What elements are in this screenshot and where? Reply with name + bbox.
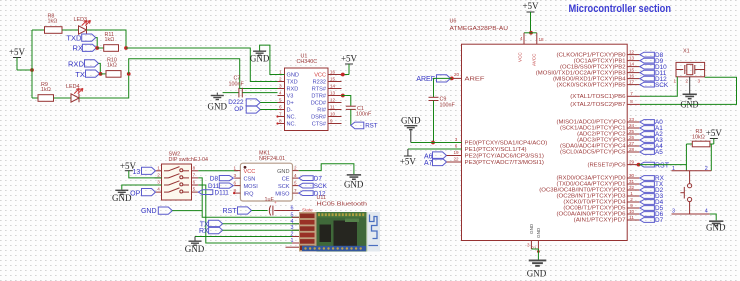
U1 pin 7 NC. bbox=[278, 116, 285, 118]
svg-text:RXD: RXD bbox=[287, 87, 299, 93]
U6 pin 25 PC2 bbox=[627, 133, 640, 135]
svg-text:+5V: +5V bbox=[706, 128, 723, 138]
capacitor C9 100nF bbox=[434, 78, 452, 97]
junction dot U6 VCC bbox=[529, 31, 533, 35]
svg-text:1kΩ: 1kΩ bbox=[41, 87, 51, 93]
svg-text:30: 30 bbox=[629, 173, 635, 178]
SW2 pole 4 rocker bbox=[155, 191, 162, 193]
U6 pin 30 PD0 bbox=[627, 177, 640, 179]
svg-text:28: 28 bbox=[629, 147, 635, 152]
svg-text:6: 6 bbox=[193, 180, 196, 185]
svg-text:1: 1 bbox=[630, 191, 633, 196]
U6 pin 4 VCC stub bbox=[523, 33, 525, 44]
svg-text:OP: OP bbox=[234, 106, 243, 113]
svg-text:R232: R232 bbox=[313, 80, 326, 86]
U11 stub below pin1 bbox=[286, 246, 300, 248]
U1 pin 10 DSR# bbox=[328, 116, 342, 118]
svg-text:2: 2 bbox=[294, 165, 297, 170]
svg-text:GND: GND bbox=[277, 169, 289, 175]
svg-text:(XTAL2/TOSC2)PB7: (XTAL2/TOSC2)PB7 bbox=[570, 102, 625, 108]
U6 pin 7 PB6 (XTAL1) bbox=[627, 95, 640, 97]
svg-text:OP: OP bbox=[130, 190, 140, 197]
U6 pin 13 PB1 bbox=[627, 60, 640, 62]
svg-text:CSN: CSN bbox=[244, 177, 256, 183]
svg-text:AREF: AREF bbox=[465, 77, 486, 83]
net label D10 bbox=[640, 64, 655, 69]
svg-text:GND: GND bbox=[141, 208, 157, 215]
svg-text:+5V: +5V bbox=[120, 161, 137, 171]
svg-text:2: 2 bbox=[279, 76, 282, 81]
svg-text:16: 16 bbox=[330, 69, 336, 74]
U1 pin 2 TXD bbox=[278, 81, 285, 83]
U1 pin 4 V3 bbox=[278, 95, 285, 97]
net label A0 bbox=[640, 120, 655, 125]
wire RST up to R3 bbox=[685, 144, 687, 171]
net label A4 bbox=[640, 144, 655, 149]
svg-text:5: 5 bbox=[193, 187, 196, 192]
svg-text:19: 19 bbox=[453, 150, 459, 155]
U6 pin 26 PC3 bbox=[627, 139, 640, 141]
svg-text:ATMEGA328PB-AU: ATMEGA328PB-AU bbox=[450, 26, 509, 32]
svg-text:3: 3 bbox=[672, 209, 675, 215]
svg-text:11: 11 bbox=[330, 104, 335, 109]
svg-text:RXD: RXD bbox=[68, 60, 85, 69]
svg-text:13: 13 bbox=[629, 55, 635, 60]
U1 pin 9 CTS# bbox=[328, 123, 342, 125]
net label D3 bbox=[640, 194, 655, 199]
svg-text:RST: RST bbox=[365, 123, 378, 130]
wire cap to HC05 pin6 bbox=[274, 210, 292, 212]
svg-text:D8: D8 bbox=[210, 175, 219, 182]
U6 pin 32 PD2 bbox=[627, 189, 640, 191]
svg-text:20: 20 bbox=[454, 72, 460, 77]
U6 pin 28 PC5 bbox=[627, 151, 640, 153]
svg-text:5: 5 bbox=[279, 97, 282, 102]
svg-text:2: 2 bbox=[686, 79, 689, 84]
svg-text:4: 4 bbox=[705, 209, 708, 215]
svg-text:14: 14 bbox=[629, 61, 635, 66]
MK1 pin 6 MOSI bbox=[234, 185, 240, 187]
U6 pin 29 PC6 RESET bbox=[627, 164, 638, 166]
svg-text:100nF: 100nF bbox=[229, 82, 245, 88]
svg-text:6: 6 bbox=[233, 180, 236, 185]
U6 pin 10 PD6 bbox=[627, 213, 640, 215]
junction dot R10 out bbox=[127, 72, 131, 76]
U6 pin 17 PB5 bbox=[627, 84, 640, 86]
U6 pin 2 PD4 bbox=[627, 201, 640, 203]
net label D12 bbox=[640, 76, 655, 81]
svg-text:A7: A7 bbox=[424, 160, 433, 167]
svg-text:SCK: SCK bbox=[655, 82, 669, 89]
svg-text:RTS#: RTS# bbox=[312, 87, 327, 93]
wire to R10 bbox=[101, 73, 106, 75]
wire net TXD to CH340 pin2 bbox=[126, 48, 278, 82]
U1 pin 11 RI# bbox=[328, 109, 342, 111]
svg-text:7: 7 bbox=[279, 111, 282, 116]
wire PB7 to X1 bbox=[640, 77, 737, 104]
svg-text:1: 1 bbox=[157, 165, 160, 170]
U6 pin 12 PB0 bbox=[627, 54, 640, 56]
svg-text:GND: GND bbox=[401, 116, 421, 126]
net label SCK at MK1 SCK bbox=[299, 183, 314, 188]
junction node TX/RXD bbox=[99, 72, 103, 76]
svg-text:PE1(PTCXY/SCL1/T4): PE1(PTCXY/SCL1/T4) bbox=[465, 147, 527, 153]
wire RX to HC05 pin3 bbox=[223, 229, 300, 231]
svg-text:NC.: NC. bbox=[287, 115, 297, 121]
ground GND at MK1 bbox=[347, 174, 361, 176]
net label A2 bbox=[640, 132, 655, 137]
wire VCC/AVCC link bbox=[524, 32, 537, 34]
svg-text:+5V: +5V bbox=[9, 47, 26, 57]
wire SW2 pin8 to MK1 VCC bbox=[198, 170, 237, 172]
SW2 pole 3 rocker bbox=[155, 184, 162, 186]
power +5V at R3 bbox=[710, 143, 714, 145]
svg-text:GND: GND bbox=[706, 223, 726, 233]
U1 NC pin8 end dot bbox=[276, 122, 278, 124]
svg-text:4: 4 bbox=[157, 187, 160, 192]
svg-text:29: 29 bbox=[629, 159, 635, 164]
svg-text:24: 24 bbox=[629, 123, 635, 128]
MK1 IRQ unconnected dot bbox=[233, 192, 235, 194]
U1 pin 16 VCC bbox=[328, 74, 342, 76]
net label D6 bbox=[640, 212, 655, 217]
MK1 pin 7 MISO bbox=[293, 192, 299, 194]
svg-text:D11: D11 bbox=[208, 183, 220, 190]
svg-text:12: 12 bbox=[330, 97, 336, 102]
net label A3 bbox=[640, 138, 655, 143]
U1 pin 3 RXD bbox=[278, 88, 285, 90]
svg-text:8: 8 bbox=[630, 99, 633, 104]
svg-text:4: 4 bbox=[279, 90, 282, 95]
svg-text:RI#: RI# bbox=[317, 108, 327, 114]
svg-text:IRQ: IRQ bbox=[244, 192, 255, 198]
svg-text:+5V: +5V bbox=[522, 1, 539, 11]
svg-text:GND: GND bbox=[681, 100, 699, 110]
U6 pin 24 PC1 bbox=[627, 127, 640, 129]
svg-text:D222: D222 bbox=[228, 99, 244, 106]
net label D12 at MK1 MISO bbox=[299, 191, 314, 196]
svg-text:MISO: MISO bbox=[275, 192, 290, 198]
svg-text:PE0(PTCXY/SDA1/ICP4/ACO): PE0(PTCXY/SDA1/ICP4/ACO) bbox=[465, 140, 548, 146]
svg-text:3: 3 bbox=[279, 83, 282, 88]
svg-text:TXD: TXD bbox=[66, 33, 82, 42]
ground GND at X1 bbox=[689, 77, 691, 94]
ground GND at switch bbox=[709, 220, 723, 222]
svg-text:4: 4 bbox=[520, 36, 523, 41]
ground GND below HC05 wires bbox=[194, 237, 196, 241]
svg-text:27: 27 bbox=[629, 141, 635, 146]
svg-text:100nF: 100nF bbox=[356, 111, 372, 117]
net label D4 bbox=[640, 200, 655, 205]
svg-text:GND: GND bbox=[287, 73, 299, 79]
wire TXD stub bbox=[96, 38, 98, 48]
junction dot RST bbox=[637, 163, 641, 167]
svg-text:U6: U6 bbox=[450, 19, 457, 25]
svg-text:CH340C: CH340C bbox=[297, 59, 318, 65]
junction dot R11 out bbox=[124, 46, 128, 50]
net label D111 at SW2 pin5 bbox=[198, 190, 213, 195]
net label A5 bbox=[640, 150, 655, 155]
svg-text:State: State bbox=[302, 208, 313, 213]
net label D7 bbox=[640, 218, 655, 223]
wire LED3 cathode to node bbox=[87, 30, 127, 48]
wire GND pins join bbox=[531, 248, 538, 250]
net label D8 bbox=[640, 52, 655, 57]
U1 pin 15 R232 bbox=[328, 81, 342, 83]
wire MK1 GND pin to ground bbox=[299, 164, 354, 174]
U1 pin 1 GND bbox=[278, 74, 285, 76]
svg-text:CE: CE bbox=[282, 177, 290, 183]
svg-text:MOSI: MOSI bbox=[244, 184, 259, 190]
svg-text:NRF24L01: NRF24L01 bbox=[259, 156, 285, 162]
wire RST to cap bbox=[252, 210, 268, 212]
svg-text:2: 2 bbox=[630, 197, 633, 202]
MK1 pin 3 CSN bbox=[234, 177, 240, 179]
svg-text:100nF: 100nF bbox=[440, 103, 456, 109]
wire PB6 to X1 bbox=[640, 77, 677, 97]
wire GND to PE0 bbox=[411, 142, 462, 144]
svg-text:(AIN1/PTCXY)PD7: (AIN1/PTCXY)PD7 bbox=[574, 218, 626, 224]
net label RST (U6) bbox=[640, 162, 655, 167]
svg-text:D7: D7 bbox=[655, 217, 664, 224]
wire RST net to switch bbox=[639, 164, 687, 166]
svg-text:1: 1 bbox=[672, 166, 675, 172]
svg-text:7: 7 bbox=[193, 172, 196, 177]
switch SW1 top rail pins 1-2 bbox=[672, 170, 712, 172]
svg-text:PE2(PTCY/ADC6/ICP3/SS1): PE2(PTCY/ADC6/ICP3/SS1) bbox=[465, 153, 545, 159]
net label D11 bbox=[640, 70, 655, 75]
U6 pin 18 AVCC stub bbox=[536, 33, 538, 44]
svg-text:1uF: 1uF bbox=[265, 197, 275, 203]
net label D5 bbox=[640, 206, 655, 211]
MK1 pin 4 CE bbox=[293, 177, 299, 179]
U6 pin 11 PD7 bbox=[627, 219, 640, 221]
svg-text:6: 6 bbox=[455, 143, 458, 148]
svg-text:RST: RST bbox=[655, 162, 670, 169]
junction node RX/TXD bbox=[95, 46, 99, 50]
wire SW2 pin6 to HC05 pin1 bbox=[198, 185, 299, 243]
svg-text:10kΩ: 10kΩ bbox=[692, 135, 705, 141]
wire to R8 bbox=[32, 29, 45, 31]
svg-text:7: 7 bbox=[294, 188, 297, 193]
svg-text:3: 3 bbox=[698, 79, 701, 84]
wire TX to HC05 pin4 bbox=[223, 223, 300, 225]
svg-text:D+: D+ bbox=[287, 101, 294, 107]
svg-text:3: 3 bbox=[527, 243, 530, 248]
svg-text:CTS#: CTS# bbox=[312, 122, 327, 128]
U1 pin 6 D- bbox=[278, 109, 285, 111]
U6 pin 15 PB3 bbox=[627, 72, 640, 74]
ground GND below U6 bbox=[537, 249, 539, 260]
svg-text:1kΩ: 1kΩ bbox=[48, 19, 58, 25]
svg-text:23: 23 bbox=[629, 117, 635, 122]
switch SW1 actuator bbox=[683, 187, 685, 199]
net label TX bbox=[640, 182, 655, 187]
wire R3/+5V down to switch pin2 bbox=[710, 144, 712, 171]
svg-text:15: 15 bbox=[629, 67, 635, 72]
svg-text:7: 7 bbox=[630, 91, 633, 96]
svg-text:4: 4 bbox=[294, 173, 297, 178]
switch SW1 contacts bbox=[689, 171, 691, 184]
MK1 pin 1 VCC bbox=[234, 170, 240, 172]
wire SW2 pin7 down to HC05 pin5 bbox=[198, 178, 299, 217]
svg-text:13: 13 bbox=[330, 90, 336, 95]
svg-text:18: 18 bbox=[539, 37, 545, 42]
svg-text:10: 10 bbox=[330, 111, 336, 116]
U1 pin 12 DCD# bbox=[328, 102, 342, 104]
svg-text:3: 3 bbox=[233, 173, 236, 178]
svg-text:3: 3 bbox=[455, 137, 458, 142]
svg-text:15: 15 bbox=[330, 76, 336, 81]
svg-text:U11: U11 bbox=[317, 195, 327, 201]
svg-text:11: 11 bbox=[629, 215, 634, 220]
net label RST at C1 bbox=[351, 122, 364, 129]
svg-text:VCC: VCC bbox=[518, 52, 523, 62]
power +5V at U1 VCC bbox=[345, 63, 353, 65]
ground GND above U1 (pin1) bbox=[260, 45, 285, 74]
svg-text:DCD#: DCD# bbox=[311, 101, 327, 107]
switch SW1 bottom rail pins 3-4 bbox=[672, 213, 710, 215]
U6 pin 1 PD3 bbox=[627, 195, 640, 197]
svg-text:26: 26 bbox=[629, 135, 635, 140]
U6 pin 8 PB7 (XTAL2) bbox=[627, 103, 640, 105]
junction dot U1 VCC bbox=[341, 73, 345, 77]
svg-text:1: 1 bbox=[233, 165, 236, 170]
U6 pin 31 PD1 bbox=[627, 183, 640, 185]
junction dot +5V rail bbox=[30, 68, 34, 72]
svg-text:GND: GND bbox=[112, 193, 132, 203]
svg-text:(SCL0/ADC5/PTCY)PC5: (SCL0/ADC5/PTCY)PC5 bbox=[560, 150, 626, 156]
svg-text:22: 22 bbox=[453, 156, 459, 161]
wire R8-LED3 bbox=[62, 29, 79, 31]
junction dot C9/PE0 bbox=[431, 141, 435, 145]
U11 module photo bbox=[299, 212, 380, 252]
svg-text:+5V: +5V bbox=[341, 54, 358, 64]
U6 pin 27 PC4 bbox=[627, 145, 640, 147]
svg-text:9: 9 bbox=[630, 203, 633, 208]
svg-text:DTR#: DTR# bbox=[311, 94, 326, 100]
wire net RXD to CH340 pin3 bbox=[129, 59, 278, 89]
svg-text:GND: GND bbox=[529, 223, 534, 234]
junction dot U1 DTR bbox=[341, 94, 345, 98]
svg-text:GND: GND bbox=[536, 227, 541, 238]
U6 pin 16 PB4 bbox=[627, 78, 640, 80]
svg-text:10: 10 bbox=[629, 209, 635, 214]
svg-text:(RESET#)PC6: (RESET#)PC6 bbox=[588, 162, 626, 168]
svg-text:3: 3 bbox=[157, 180, 160, 185]
svg-text:1: 1 bbox=[674, 79, 677, 84]
net label RX bbox=[640, 176, 655, 181]
svg-text:9: 9 bbox=[330, 118, 333, 123]
MK1 pin 8 IRQ bbox=[234, 192, 240, 194]
svg-text:SCK: SCK bbox=[278, 184, 290, 190]
svg-text:DIP switchEJ-04: DIP switchEJ-04 bbox=[169, 157, 208, 163]
svg-text:DSR#: DSR# bbox=[311, 115, 327, 121]
svg-text:6: 6 bbox=[279, 104, 282, 109]
svg-text:14: 14 bbox=[330, 83, 336, 88]
ground GND at C7 bbox=[216, 93, 218, 95]
SW2 pole 2 rocker bbox=[155, 177, 162, 179]
svg-text:GND: GND bbox=[250, 54, 270, 64]
svg-text:SCK: SCK bbox=[314, 183, 328, 190]
wire GND flag to DIP7 net bbox=[172, 210, 202, 212]
svg-text:(XTAL1/TOSC1)PB6: (XTAL1/TOSC1)PB6 bbox=[570, 94, 625, 100]
U6 pin 9 PD5 bbox=[627, 207, 640, 209]
svg-text:RX: RX bbox=[199, 228, 209, 235]
svg-text:8: 8 bbox=[193, 165, 196, 170]
svg-text:21: 21 bbox=[531, 246, 537, 251]
svg-text:25: 25 bbox=[629, 129, 635, 134]
U6 pin 20 AREF bbox=[452, 77, 462, 79]
svg-text:16: 16 bbox=[629, 73, 635, 78]
net label A1 bbox=[640, 126, 655, 131]
ground GND at SW2 pin3 bbox=[122, 185, 162, 190]
svg-text:X1: X1 bbox=[683, 49, 690, 55]
svg-text:1kΩ: 1kΩ bbox=[107, 63, 117, 69]
svg-text:AREF: AREF bbox=[416, 76, 435, 83]
svg-text:TX: TX bbox=[75, 70, 85, 79]
svg-text:2: 2 bbox=[157, 172, 160, 177]
U1 NC pin7 end dot bbox=[276, 115, 278, 117]
svg-text:V3: V3 bbox=[287, 94, 294, 100]
U6 pin 23 PC0 bbox=[627, 121, 640, 123]
U1 pin 8 NC. bbox=[278, 123, 285, 125]
svg-text:GND: GND bbox=[208, 102, 228, 112]
svg-text:AVCC: AVCC bbox=[532, 53, 537, 66]
power +5V at U6 top bbox=[527, 11, 535, 13]
svg-text:Microcontroller section: Microcontroller section bbox=[569, 3, 672, 15]
wire to R11 bbox=[97, 47, 104, 49]
svg-text:2: 2 bbox=[705, 166, 708, 172]
svg-text:D111: D111 bbox=[215, 190, 230, 197]
SW2 pole 1 rocker bbox=[155, 170, 162, 172]
svg-text:8: 8 bbox=[279, 118, 282, 123]
svg-text:1: 1 bbox=[279, 69, 282, 74]
wire +5V to R9 bbox=[32, 97, 38, 99]
power +5V (top-left feed) bbox=[13, 57, 21, 59]
svg-text:RST: RST bbox=[223, 208, 238, 215]
svg-text:VCC: VCC bbox=[244, 169, 256, 175]
junction dot U6 GND bbox=[537, 250, 540, 253]
wire LED4 cathode to node bbox=[79, 74, 129, 98]
junction dot AREF bbox=[450, 77, 454, 81]
svg-text:D7: D7 bbox=[314, 176, 323, 183]
U6 pin 14 PB2 bbox=[627, 66, 640, 68]
svg-text:GND: GND bbox=[527, 269, 547, 279]
svg-text:5: 5 bbox=[294, 180, 297, 185]
net label D9 bbox=[640, 58, 655, 63]
power +5V at PE1 (flipped) bbox=[408, 148, 462, 150]
net label D7 at MK1 CE bbox=[299, 176, 314, 181]
wire +5V vertical rail bbox=[31, 30, 33, 98]
svg-text:31: 31 bbox=[629, 179, 635, 184]
svg-text:RX: RX bbox=[72, 44, 83, 53]
svg-text:VCC: VCC bbox=[314, 73, 326, 79]
svg-text:17: 17 bbox=[629, 79, 635, 84]
svg-text:32: 32 bbox=[629, 185, 635, 190]
wire HC05 pin2 to ground bbox=[195, 236, 300, 238]
svg-text:GND: GND bbox=[185, 244, 205, 254]
net label SCK bbox=[640, 82, 655, 87]
svg-text:D-: D- bbox=[287, 108, 293, 114]
wire DTR to C1 bbox=[342, 96, 351, 107]
wire RXD stub bbox=[99, 63, 101, 74]
U1 pin 13 DTR# bbox=[328, 95, 342, 97]
svg-text:(XCK0/SCK0/PTCXY)PB5: (XCK0/SCK0/PTCXY)PB5 bbox=[557, 82, 626, 88]
U1 pin 14 RTS# bbox=[328, 88, 342, 90]
net label D2 bbox=[640, 188, 655, 193]
svg-text:+5V: +5V bbox=[400, 157, 417, 167]
